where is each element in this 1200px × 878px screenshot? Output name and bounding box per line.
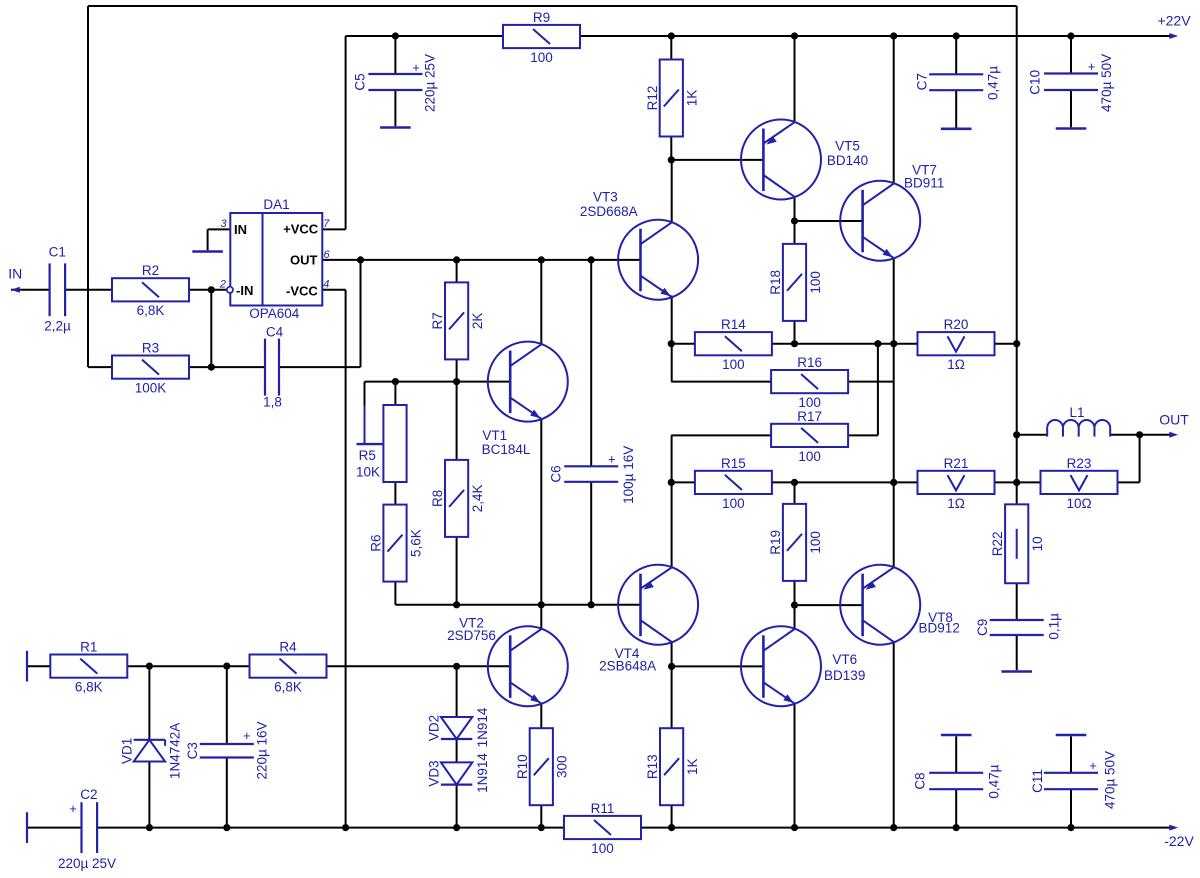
- svg-text:100: 100: [808, 531, 823, 554]
- svg-text:C11: C11: [1030, 769, 1045, 793]
- svg-text:0,1µ: 0,1µ: [1047, 613, 1062, 640]
- svg-text:100: 100: [722, 357, 745, 372]
- svg-text:R14: R14: [721, 317, 746, 332]
- svg-text:C6: C6: [548, 465, 563, 482]
- svg-text:1Ω: 1Ω: [947, 357, 965, 372]
- svg-text:+: +: [1089, 758, 1097, 773]
- svg-text:DA1: DA1: [263, 197, 289, 212]
- svg-text:+: +: [1088, 59, 1096, 74]
- svg-text:R15: R15: [721, 456, 746, 471]
- svg-text:2SB648A: 2SB648A: [599, 658, 656, 673]
- svg-text:IN: IN: [8, 265, 22, 281]
- svg-text:OPA604: OPA604: [249, 306, 300, 321]
- svg-text:6,8K: 6,8K: [75, 680, 103, 695]
- svg-text:3: 3: [220, 218, 227, 230]
- svg-text:2,4K: 2,4K: [470, 485, 485, 513]
- svg-text:C10: C10: [1028, 70, 1043, 95]
- svg-text:R9: R9: [533, 10, 550, 25]
- svg-text:R4: R4: [279, 640, 297, 655]
- svg-text:VD2: VD2: [427, 715, 442, 741]
- svg-text:C1: C1: [49, 245, 66, 260]
- svg-text:BC184L: BC184L: [482, 442, 531, 457]
- svg-text:-IN: -IN: [236, 283, 253, 298]
- svg-text:+22V: +22V: [1157, 12, 1191, 28]
- svg-text:-VCC: -VCC: [286, 284, 318, 299]
- svg-text:R23: R23: [1067, 456, 1092, 471]
- svg-text:220µ 25V: 220µ 25V: [58, 856, 116, 871]
- svg-text:2K: 2K: [470, 313, 485, 330]
- svg-text:100: 100: [722, 496, 745, 511]
- svg-text:100: 100: [798, 449, 821, 464]
- svg-text:R17: R17: [797, 409, 822, 424]
- svg-text:BD912: BD912: [919, 621, 960, 636]
- svg-text:5,6K: 5,6K: [408, 529, 423, 557]
- svg-text:100: 100: [808, 271, 823, 294]
- svg-text:4: 4: [323, 279, 329, 291]
- svg-text:R1: R1: [80, 640, 97, 655]
- svg-text:+: +: [243, 728, 251, 743]
- svg-text:-22V: -22V: [1164, 833, 1194, 849]
- svg-text:0,47µ: 0,47µ: [986, 66, 1001, 100]
- svg-text:1,8: 1,8: [263, 395, 282, 410]
- svg-text:R12: R12: [645, 86, 660, 111]
- svg-text:BD911: BD911: [904, 175, 944, 190]
- svg-text:10K: 10K: [356, 464, 380, 479]
- svg-text:1K: 1K: [685, 758, 700, 775]
- svg-text:100: 100: [591, 841, 614, 856]
- svg-text:OUT: OUT: [290, 253, 318, 268]
- svg-text:100: 100: [530, 50, 553, 65]
- svg-text:R10: R10: [515, 754, 530, 779]
- svg-text:IN: IN: [234, 222, 247, 237]
- svg-text:VT3: VT3: [593, 189, 618, 204]
- svg-text:7: 7: [323, 218, 330, 230]
- svg-text:BD140: BD140: [827, 153, 868, 168]
- svg-text:100: 100: [798, 395, 821, 410]
- svg-text:VT1: VT1: [482, 428, 507, 443]
- svg-text:470µ 50V: 470µ 50V: [1099, 54, 1114, 112]
- svg-text:220µ 25V: 220µ 25V: [422, 54, 437, 112]
- svg-text:VD3: VD3: [427, 760, 442, 786]
- svg-text:6,8K: 6,8K: [137, 303, 165, 318]
- svg-text:+: +: [608, 451, 616, 466]
- svg-text:R2: R2: [142, 263, 159, 278]
- svg-text:2: 2: [219, 278, 226, 290]
- svg-text:220µ 16V: 220µ 16V: [255, 721, 270, 779]
- svg-text:C7: C7: [914, 73, 929, 90]
- svg-text:R3: R3: [142, 341, 159, 356]
- svg-text:2SD756: 2SD756: [447, 628, 496, 643]
- svg-text:VT6: VT6: [832, 652, 857, 667]
- svg-text:C5: C5: [353, 73, 368, 90]
- svg-text:+VCC: +VCC: [283, 222, 319, 237]
- svg-text:470µ 50V: 470µ 50V: [1103, 751, 1118, 809]
- svg-text:R20: R20: [944, 317, 969, 332]
- svg-text:R11: R11: [591, 801, 615, 816]
- svg-text:R13: R13: [645, 754, 660, 779]
- svg-text:R6: R6: [369, 534, 384, 551]
- svg-text:C3: C3: [185, 742, 200, 759]
- svg-text:6: 6: [323, 249, 330, 261]
- svg-text:C9: C9: [975, 619, 990, 636]
- svg-text:+: +: [69, 801, 77, 816]
- svg-text:2,2µ: 2,2µ: [44, 318, 71, 333]
- svg-text:1Ω: 1Ω: [947, 496, 965, 511]
- svg-text:R19: R19: [768, 530, 783, 555]
- svg-text:1N914: 1N914: [475, 707, 490, 747]
- svg-text:C4: C4: [266, 324, 284, 339]
- svg-text:R8: R8: [430, 490, 445, 507]
- svg-text:R21: R21: [944, 456, 969, 471]
- svg-text:1N914: 1N914: [475, 753, 490, 793]
- svg-text:R22: R22: [990, 531, 1005, 556]
- svg-text:2SD668A: 2SD668A: [580, 204, 638, 219]
- svg-text:VD1: VD1: [119, 738, 134, 764]
- svg-text:6,8K: 6,8K: [274, 680, 302, 695]
- svg-text:1N4742A: 1N4742A: [168, 723, 183, 779]
- svg-text:VT5: VT5: [835, 139, 860, 154]
- svg-text:L1: L1: [1069, 405, 1084, 420]
- svg-text:100K: 100K: [135, 381, 167, 396]
- svg-text:R7: R7: [430, 312, 445, 329]
- svg-text:10Ω: 10Ω: [1066, 496, 1091, 511]
- svg-text:100µ 16V: 100µ 16V: [621, 446, 636, 504]
- svg-text:C8: C8: [912, 772, 927, 789]
- svg-text:OUT: OUT: [1159, 411, 1189, 427]
- svg-text:R18: R18: [768, 270, 783, 295]
- svg-text:R5: R5: [359, 448, 376, 463]
- svg-text:10: 10: [1030, 536, 1045, 551]
- svg-text:BD139: BD139: [824, 668, 865, 683]
- svg-text:0,47µ: 0,47µ: [987, 764, 1002, 798]
- svg-text:+: +: [412, 60, 420, 75]
- svg-text:300: 300: [555, 755, 570, 778]
- svg-text:1K: 1K: [685, 90, 700, 107]
- svg-text:R16: R16: [797, 355, 822, 370]
- svg-text:C2: C2: [80, 787, 97, 802]
